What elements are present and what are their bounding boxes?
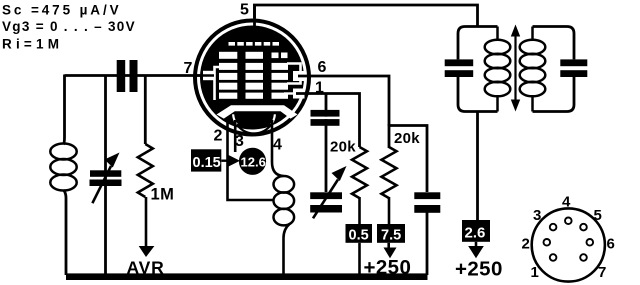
tube grid top dashed line (229, 42, 280, 46)
AVR arrowhead (139, 246, 155, 257)
wire pin7 into tube (197, 74, 214, 77)
svg-text:2.6: 2.6 (465, 225, 486, 242)
socket pin hole 2 (544, 239, 551, 246)
IFT primary winding (485, 27, 511, 112)
tube pin1 entry white stub (284, 92, 293, 94)
wire left vertical to antenna coil (64, 75, 65, 145)
tube cathode circle white part (233, 114, 275, 124)
svg-text:1M: 1M (151, 186, 175, 204)
tube V1 envelope (195, 21, 309, 135)
tube cathode arc black part (237, 125, 271, 134)
capacitor C-osc grid (311, 110, 340, 126)
capacitor C-grid (antenna coupling) (117, 60, 138, 92)
svg-text:20k: 20k (330, 139, 356, 156)
arrow 0.15 pointer (221, 159, 230, 161)
tube pin7 entry slit (203, 71, 215, 80)
tube pin6 entry slit (293, 71, 305, 81)
socket pin hole 4 (565, 218, 572, 225)
svg-text:2: 2 (522, 236, 530, 253)
arrow to +250 middle (387, 243, 390, 249)
wire branch variable cap VC1 (104, 76, 107, 276)
variable capacitor VC1 arrow (92, 153, 119, 204)
tube socket circle (532, 208, 605, 281)
wire pin3 to heater label (234, 120, 237, 152)
wire R2 to 0.5 label (358, 197, 361, 226)
tuning arrow (511, 25, 520, 112)
svg-text:0.5: 0.5 (349, 227, 369, 243)
svg-text:Vg3 = 0 . . . – 30V: Vg3 = 0 . . . – 30V (2, 19, 136, 34)
svg-text:4: 4 (562, 194, 571, 211)
capacitor C-tank-right (560, 59, 587, 66)
svg-text:Ri=1M: Ri=1M (2, 37, 63, 52)
svg-text:2: 2 (214, 128, 223, 145)
tube anode bracket left (215, 67, 223, 100)
wire 0.5 to bus (358, 243, 361, 275)
svg-text:Sc =475 µA/V: Sc =475 µA/V (2, 3, 122, 18)
svg-text:1: 1 (531, 264, 539, 281)
IF transformer right tank outline (533, 27, 575, 112)
ground bus (66, 273, 428, 280)
socket pin hole 5 (580, 224, 587, 231)
wire oscillator coil to bus (284, 224, 291, 276)
tube V1 electrode blob (200, 26, 304, 130)
svg-text:5: 5 (594, 207, 602, 224)
tube pin1 entry slit (293, 89, 305, 99)
svg-text:12.6: 12.6 (241, 154, 266, 169)
resistor R2 20k zigzag (352, 147, 367, 198)
resistor R3 20k zigzag (382, 147, 397, 198)
IF transformer left tank outline (458, 27, 498, 112)
wire antenna coil to bus (64, 190, 67, 275)
wire pin4 to oscillator coil (272, 120, 284, 176)
antenna coil L1 (50, 144, 76, 191)
wire cap to left (65, 74, 118, 77)
wire cap to bus (426, 212, 429, 275)
wire pin2 down to coil tap (228, 120, 274, 200)
wire junction to R3 top (388, 124, 391, 148)
socket pin hole 7 (580, 254, 587, 261)
label 0.5 black box (346, 224, 373, 243)
tube grid dashes column A (219, 52, 237, 99)
oscillator coil L2 (274, 176, 295, 225)
tube anode bracket right (287, 64, 301, 84)
IFT secondary winding (520, 27, 546, 112)
svg-text:6: 6 (607, 236, 615, 253)
wire R1 to AVR arrow (145, 197, 148, 248)
capacitor C-tank-left (445, 59, 474, 66)
svg-text:0.15: 0.15 (193, 155, 221, 171)
svg-text:3: 3 (533, 207, 541, 224)
socket pin hole 6 (587, 239, 594, 246)
svg-text:6: 6 (318, 59, 327, 76)
arrow to +250 right (475, 242, 478, 249)
wire pin1 to right (296, 94, 360, 148)
wire pin6 to right (298, 76, 389, 126)
svg-text:4: 4 (273, 137, 282, 154)
wire pin5 into tube (253, 4, 256, 30)
tube grid dashes column C (272, 53, 289, 99)
capacitor C-decouple (414, 192, 440, 199)
variable capacitor VC2 plates (310, 192, 342, 199)
label 2.6 black box (462, 220, 490, 242)
svg-text:7.5: 7.5 (381, 227, 401, 243)
label 0.15 black box (191, 149, 221, 171)
svg-text:7: 7 (598, 264, 606, 281)
label 12.6 heater circle (239, 148, 266, 175)
wire branch resistor R1 1M (144, 76, 147, 145)
socket pin hole 3 (550, 224, 557, 231)
svg-text:7: 7 (184, 60, 193, 77)
wire pin7 left horizontal (117, 74, 206, 77)
svg-text:+250: +250 (455, 257, 503, 280)
wire tank bottom to 2.6 (476, 112, 479, 222)
svg-text:5: 5 (240, 2, 249, 19)
tube grid dashes column B (246, 52, 264, 99)
wire pin1 branch down (325, 94, 328, 193)
wire junction to decoupling cap (389, 126, 427, 193)
svg-text:20k: 20k (394, 130, 420, 147)
tube bottom chevron (217, 105, 298, 118)
label 7.5 black box (377, 224, 405, 243)
wire pin5 top (255, 5, 478, 27)
variable capacitor VC2 arrow (313, 166, 347, 218)
wire R3 to 7.5 label (388, 197, 391, 226)
socket pin hole 1 (550, 254, 557, 261)
variable capacitor VC1 plates (90, 170, 122, 186)
resistor R1 1M zigzag (138, 144, 153, 197)
